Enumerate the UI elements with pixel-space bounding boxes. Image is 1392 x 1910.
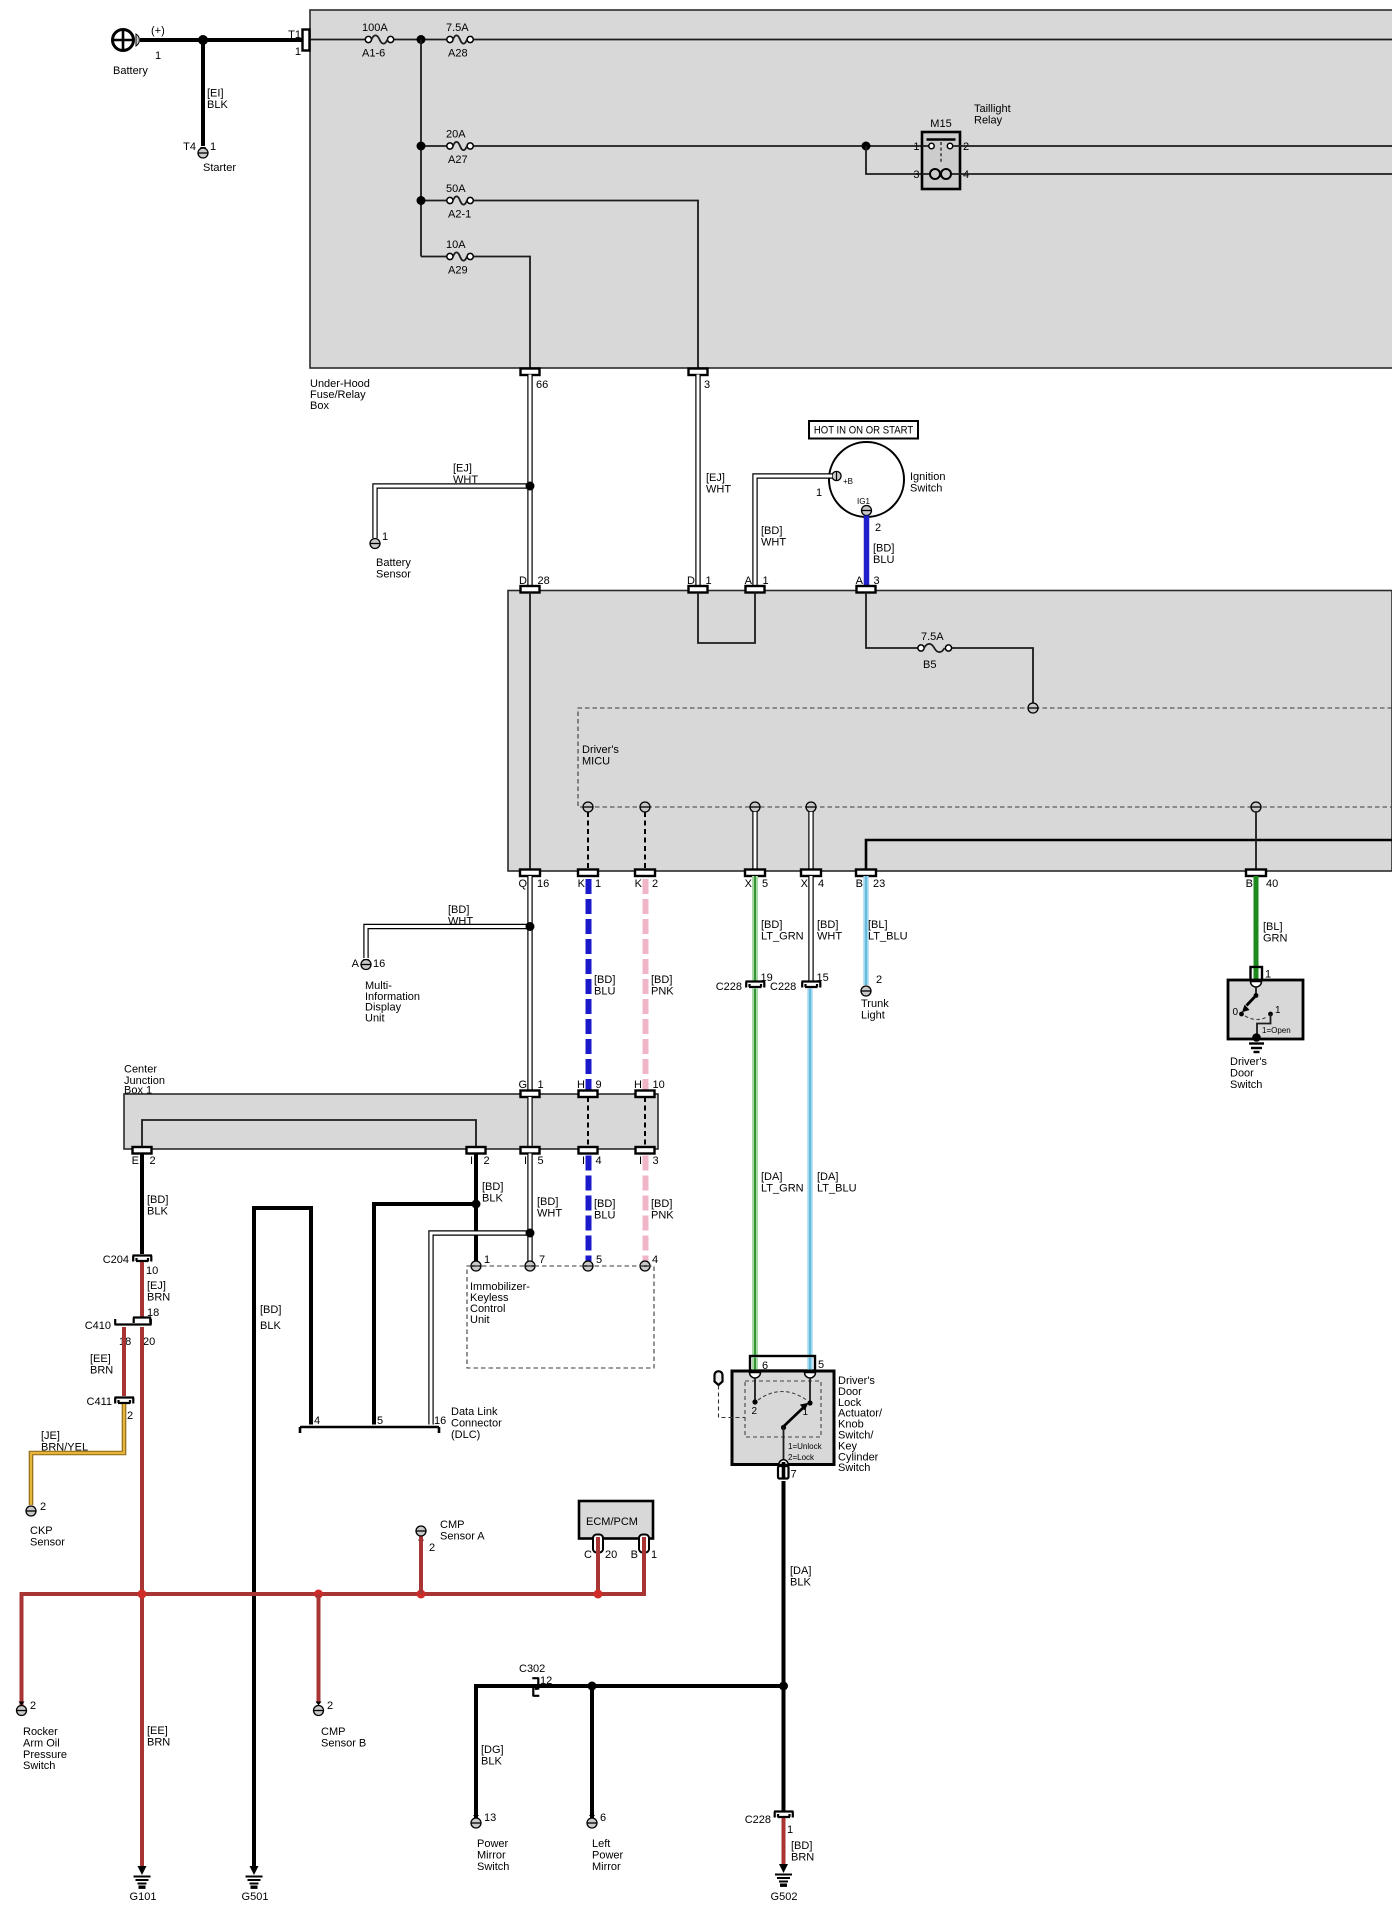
node relay branch junction	[862, 142, 871, 151]
svg-text:(DLC): (DLC)	[451, 1429, 480, 1441]
svg-text:1: 1	[787, 1824, 793, 1836]
wire [DA] LT_BLU to actuator	[807, 989, 812, 1357]
connector C228 (19)	[746, 982, 766, 988]
svg-text:X: X	[801, 878, 809, 890]
svg-text:1: 1	[155, 50, 161, 62]
svg-text:Starter: Starter	[203, 162, 236, 174]
svg-text:2: 2	[876, 974, 882, 986]
svg-text:1: 1	[382, 531, 388, 543]
svg-text:H: H	[634, 1079, 642, 1091]
pin K1	[578, 870, 598, 877]
pin I5	[521, 1147, 540, 1154]
connector C410	[115, 1318, 152, 1325]
svg-text:1: 1	[706, 575, 712, 587]
svg-text:G101: G101	[130, 1891, 157, 1903]
svg-text:Rocker: Rocker	[23, 1726, 58, 1738]
svg-text:2: 2	[429, 1542, 435, 1554]
svg-text:C: C	[584, 1549, 592, 1561]
svg-text:Pressure: Pressure	[23, 1749, 67, 1761]
svg-text:C228: C228	[745, 1814, 771, 1826]
svg-text:1: 1	[651, 1549, 657, 1561]
svg-text:Relay: Relay	[974, 114, 1003, 126]
Data Link Connector (DLC)	[300, 1427, 439, 1433]
wire K2 internal dashed	[644, 812, 646, 870]
wire H9-I4 internal dashed	[587, 1097, 589, 1147]
svg-text:16: 16	[434, 1415, 446, 1427]
svg-text:(+): (+)	[151, 25, 165, 37]
svg-text:BRN: BRN	[791, 1851, 814, 1863]
svg-text:A29: A29	[448, 265, 468, 277]
wire E2 [BD] BLK	[140, 1154, 144, 1255]
svg-text:GRN: GRN	[1263, 932, 1288, 944]
svg-text:Mirror: Mirror	[592, 1861, 621, 1873]
svg-text:G501: G501	[242, 1891, 269, 1903]
svg-text:G502: G502	[771, 1891, 798, 1903]
svg-text:1: 1	[538, 1079, 544, 1091]
svg-text:I: I	[639, 1155, 642, 1167]
connector C411	[115, 1398, 135, 1404]
svg-text:1=Unlock: 1=Unlock	[788, 1442, 823, 1451]
pin I2	[467, 1147, 486, 1154]
svg-text:Sensor: Sensor	[30, 1536, 65, 1548]
svg-text:[EI]: [EI]	[207, 88, 224, 100]
svg-text:BLK: BLK	[481, 1755, 502, 1767]
bullet pin 7	[779, 1460, 788, 1465]
svg-text:4: 4	[652, 1254, 658, 1266]
svg-text:Taillight: Taillight	[974, 103, 1011, 115]
svg-text:16: 16	[373, 958, 385, 970]
svg-text:BLU: BLU	[873, 554, 894, 566]
terminal K2 internal	[640, 802, 650, 812]
wire battery sensor branch	[375, 486, 530, 538]
svg-text:MICU: MICU	[582, 755, 610, 767]
connector door switch (1)	[1251, 967, 1263, 982]
node bus junction CMP A	[417, 1590, 426, 1599]
wire Q16 to G1 [BD] WHT	[527, 876, 532, 1091]
svg-text:6: 6	[600, 1812, 606, 1824]
pin E2	[133, 1147, 152, 1154]
svg-text:4: 4	[314, 1415, 320, 1427]
svg-text:12: 12	[540, 1675, 552, 1687]
svg-text:20A: 20A	[446, 129, 466, 141]
actuator internal dashed box	[745, 1381, 821, 1437]
svg-text:BRN: BRN	[90, 1364, 113, 1376]
svg-text:40: 40	[1266, 878, 1278, 890]
svg-text:Box 1: Box 1	[124, 1084, 152, 1096]
node mirror branch junction	[779, 1682, 788, 1691]
svg-text:HOT IN ON OR START: HOT IN ON OR START	[814, 425, 914, 437]
svg-text:[BD]: [BD]	[537, 1196, 558, 1208]
HOT IN ON OR START	[809, 421, 918, 439]
svg-text:Battery: Battery	[376, 557, 411, 569]
immobilizer terminal 4	[640, 1261, 650, 1271]
dashed arc actuator	[758, 1392, 807, 1401]
svg-text:+B: +B	[843, 477, 853, 486]
ECM/PCM	[579, 1501, 653, 1539]
node bus junction C20	[594, 1590, 603, 1599]
wire K1 out [BD] BLU dashed	[586, 879, 592, 1091]
svg-text:7: 7	[539, 1254, 545, 1266]
wire left power mirror	[590, 1686, 594, 1819]
pin 3 under-hood box	[689, 369, 708, 376]
bullet terminals actuator	[750, 1373, 761, 1379]
pin D28	[521, 586, 540, 593]
svg-text:LT_BLU: LT_BLU	[868, 930, 908, 942]
svg-text:I: I	[470, 1155, 473, 1167]
svg-text:A1-6: A1-6	[362, 48, 385, 60]
svg-text:PNK: PNK	[651, 985, 674, 997]
svg-text:[EE]: [EE]	[147, 1725, 168, 1737]
svg-text:1: 1	[816, 487, 822, 499]
svg-text:C204: C204	[103, 1254, 129, 1266]
svg-text:Unit: Unit	[365, 1012, 385, 1024]
terminal K1 internal	[583, 802, 593, 812]
terminal CMP sensor B 2	[316, 1702, 322, 1706]
svg-text:BRN: BRN	[147, 1736, 170, 1748]
svg-text:BLU: BLU	[594, 985, 615, 997]
svg-text:28: 28	[538, 575, 550, 587]
svg-text:[JE]: [JE]	[41, 1430, 60, 1442]
pin B23	[856, 870, 876, 877]
switch arm door switch	[1247, 996, 1257, 1006]
svg-text:3: 3	[704, 379, 710, 391]
wire fuse row 4 (10A)	[421, 257, 530, 369]
terminal trunk light 2	[863, 986, 869, 990]
svg-text:1: 1	[210, 141, 216, 153]
pin G1	[521, 1091, 540, 1098]
svg-text:50A: 50A	[446, 183, 466, 195]
svg-text:Q: Q	[518, 878, 527, 890]
pin 66 under-hood box	[521, 369, 540, 376]
wire I3 [BD] PNK dashed	[643, 1156, 649, 1262]
wire fuse row 2 (20A)	[421, 145, 922, 147]
wire main [EE] BRN bus	[22, 1594, 645, 1706]
svg-text:1=Open: 1=Open	[1262, 1026, 1291, 1035]
svg-text:[BD]: [BD]	[482, 1181, 503, 1193]
pin H9	[579, 1091, 598, 1098]
ground G502	[779, 1864, 788, 1873]
svg-text:CMP: CMP	[321, 1726, 345, 1738]
wire D28 to Q16 internal	[529, 593, 531, 870]
node bus junction G101	[138, 1590, 147, 1599]
wire pin66 to D28 [EJ] WHT	[527, 375, 532, 588]
wire K1 internal dashed	[587, 812, 589, 870]
svg-text:X: X	[745, 878, 753, 890]
svg-text:4: 4	[963, 169, 969, 181]
svg-text:20: 20	[143, 1336, 155, 1348]
svg-text:ECM/PCM: ECM/PCM	[586, 1516, 638, 1528]
Driver's Door Switch box	[1228, 980, 1303, 1039]
svg-text:C228: C228	[716, 981, 742, 993]
svg-text:15: 15	[817, 972, 829, 984]
svg-text:2: 2	[963, 141, 969, 153]
wire IG1 [BD] BLU	[864, 516, 870, 588]
svg-text:1: 1	[595, 878, 601, 890]
svg-text:20: 20	[605, 1549, 617, 1561]
terminal X4 internal	[806, 802, 816, 812]
pin C20	[593, 1535, 603, 1553]
svg-text:Sensor A: Sensor A	[440, 1530, 485, 1542]
pin X4	[801, 870, 821, 877]
svg-text:4: 4	[596, 1155, 602, 1167]
svg-text:2: 2	[40, 1501, 46, 1513]
immobilizer terminal 1	[471, 1261, 481, 1271]
wire B23 out [BL] LT_BLU	[863, 876, 868, 985]
svg-text:[BD]: [BD]	[594, 1198, 615, 1210]
wire fuse row 3 (50A)	[421, 201, 698, 369]
svg-text:BLK: BLK	[260, 1320, 281, 1332]
svg-text:3: 3	[653, 1155, 659, 1167]
svg-text:[EJ]: [EJ]	[453, 463, 472, 475]
svg-text:5: 5	[762, 878, 768, 890]
svg-text:23: 23	[873, 878, 885, 890]
svg-text:2: 2	[652, 878, 658, 890]
fuse 100A A1-6	[365, 36, 371, 42]
wire [DA] BLK	[782, 1481, 786, 1811]
svg-text:2: 2	[30, 1700, 36, 1712]
svg-text:[BD]: [BD]	[817, 919, 838, 931]
wire B23 internal	[866, 840, 1392, 870]
svg-text:WHT: WHT	[706, 483, 731, 495]
pin D1	[689, 586, 708, 593]
svg-text:Switch: Switch	[1230, 1079, 1262, 1091]
svg-text:C410: C410	[85, 1320, 111, 1332]
svg-text:[BD]: [BD]	[761, 525, 782, 537]
svg-text:A2-1: A2-1	[448, 209, 471, 221]
svg-text:[BD]: [BD]	[761, 919, 782, 931]
svg-text:Driver's: Driver's	[582, 744, 619, 756]
svg-text:Sensor: Sensor	[376, 568, 411, 580]
node battery/starter junction	[198, 35, 208, 45]
wire [JE] BRN/YEL	[31, 1404, 124, 1505]
svg-text:BLU: BLU	[594, 1209, 615, 1221]
wire to DLC pin 5	[374, 1204, 476, 1425]
svg-text:10: 10	[653, 1079, 665, 1091]
svg-text:[DA]: [DA]	[817, 1171, 838, 1183]
svg-text:4: 4	[818, 878, 824, 890]
svg-text:T4: T4	[183, 141, 196, 153]
wire mirror branch	[476, 1686, 784, 1819]
terminal on dashed line (B5 out)	[1028, 703, 1038, 713]
svg-text:B: B	[631, 1549, 638, 1561]
pin A1	[746, 586, 765, 593]
wire G1-I5 internal	[527, 1097, 532, 1147]
starter terminal 1	[200, 147, 206, 151]
svg-text:Unit: Unit	[470, 1314, 490, 1326]
svg-text:3: 3	[913, 169, 919, 181]
wire [EI] BLK to starter	[201, 40, 205, 146]
wire D1-A1 internal U	[698, 593, 755, 644]
svg-text:M15: M15	[930, 118, 951, 130]
svg-text:[EJ]: [EJ]	[147, 1280, 166, 1292]
wire X5 out [BD] LT_GRN	[752, 876, 758, 981]
svg-text:Trunk: Trunk	[861, 998, 889, 1010]
svg-text:Switch: Switch	[910, 482, 942, 494]
wire A3 to fuse B5	[866, 593, 918, 649]
connector C228 (15)	[802, 982, 822, 988]
connector C204	[133, 1256, 153, 1262]
wire X4 internal	[808, 812, 813, 870]
svg-text:I: I	[524, 1155, 527, 1167]
svg-text:WHT: WHT	[817, 930, 842, 942]
pin B40	[1246, 870, 1266, 877]
svg-text:WHT: WHT	[537, 1207, 562, 1219]
wire B40 internal	[1255, 812, 1257, 870]
svg-text:C302: C302	[519, 1663, 545, 1675]
svg-text:16: 16	[537, 878, 549, 890]
wire branch to MID unit	[366, 927, 530, 959]
svg-text:WHT: WHT	[761, 536, 786, 548]
svg-text:13: 13	[484, 1812, 496, 1824]
svg-text:LT_BLU: LT_BLU	[817, 1182, 857, 1194]
pin H10	[636, 1091, 655, 1098]
key cylinder symbol	[715, 1371, 723, 1385]
svg-text:[BD]: [BD]	[448, 904, 469, 916]
Under-Hood Fuse/Relay Box	[310, 10, 1392, 368]
wire relay pin4 out	[960, 173, 1392, 175]
node DLC5 junction	[472, 1200, 481, 1209]
svg-text:C411: C411	[87, 1396, 112, 1408]
pin Q16	[520, 870, 540, 877]
svg-text:7: 7	[791, 1469, 797, 1481]
svg-text:A: A	[745, 575, 753, 587]
pin B1	[639, 1535, 649, 1553]
node left mirror junction	[588, 1682, 597, 1691]
pin I3	[636, 1147, 655, 1154]
svg-text:BLK: BLK	[790, 1576, 811, 1588]
terminal X5 internal	[750, 802, 760, 812]
svg-text:CMP: CMP	[440, 1519, 464, 1531]
node DLC16 junction	[526, 1229, 535, 1238]
fuse 7.5A A28	[447, 36, 453, 42]
svg-text:Left: Left	[592, 1838, 610, 1850]
svg-text:1: 1	[295, 46, 301, 58]
svg-text:[BD]: [BD]	[147, 1194, 168, 1206]
connector T1	[303, 30, 310, 51]
svg-text:B: B	[856, 878, 863, 890]
connector C302	[532, 1678, 539, 1697]
svg-text:Power: Power	[477, 1838, 509, 1850]
svg-text:A27: A27	[448, 154, 468, 166]
svg-text:Arm Oil: Arm Oil	[23, 1737, 60, 1749]
svg-text:10A: 10A	[446, 239, 466, 251]
svg-text:2: 2	[484, 1155, 490, 1167]
svg-text:A28: A28	[448, 48, 468, 60]
svg-text:Box: Box	[310, 400, 329, 412]
wire X5 internal	[752, 812, 757, 870]
svg-text:Switch: Switch	[838, 1462, 870, 1474]
dashed arc door switch	[1245, 1016, 1267, 1020]
svg-text:[DA]: [DA]	[790, 1565, 811, 1577]
node battery sensor junction	[526, 482, 535, 491]
wire ignition +B [BD] WHT	[755, 476, 832, 587]
svg-text:A: A	[352, 958, 360, 970]
svg-text:[EJ]: [EJ]	[706, 472, 725, 484]
wire [EJ] BRN	[140, 1262, 144, 1317]
svg-text:2=Lock: 2=Lock	[788, 1453, 815, 1462]
svg-text:Ignition: Ignition	[910, 471, 945, 483]
Driver's Door Lock Actuator box	[732, 1371, 834, 1465]
wire H10-I3 internal dashed	[644, 1097, 646, 1147]
terminal CMP sensor A 2	[416, 1526, 426, 1536]
svg-text:[BD]: [BD]	[651, 1198, 672, 1210]
wire pin3 to D1 [EJ] WHT	[695, 375, 700, 588]
svg-text:K: K	[635, 878, 643, 890]
terminal A16 MID unit	[363, 959, 369, 963]
svg-text:Switch: Switch	[23, 1760, 55, 1772]
svg-text:[BD]: [BD]	[594, 974, 615, 986]
terminal CKP sensor 2	[28, 1506, 34, 1510]
Immobilizer-Keyless Control Unit dashed box	[467, 1266, 654, 1368]
wire E2-I2 internal	[142, 1120, 476, 1147]
svg-text:I: I	[582, 1155, 585, 1167]
svg-text:5: 5	[596, 1254, 602, 1266]
svg-text:7.5A: 7.5A	[921, 631, 944, 643]
svg-text:2: 2	[327, 1700, 333, 1712]
svg-text:Driver's: Driver's	[1230, 1056, 1267, 1068]
svg-text:10: 10	[146, 1265, 158, 1277]
wire X4 out [BD] WHT	[808, 876, 813, 981]
svg-text:[BD]: [BD]	[873, 543, 894, 555]
immobilizer terminal 7	[525, 1261, 535, 1271]
pin K2	[635, 870, 655, 877]
relay M15 Taillight Relay	[913, 103, 1010, 189]
svg-text:5: 5	[818, 1359, 824, 1371]
node MID branch junction	[526, 922, 535, 931]
svg-text:BLK: BLK	[482, 1192, 503, 1204]
svg-text:WHT: WHT	[453, 474, 478, 486]
svg-text:2: 2	[127, 1410, 133, 1422]
wire relay pin2 out	[960, 145, 1392, 147]
svg-text:0: 0	[1232, 1007, 1238, 1018]
svg-text:5: 5	[377, 1415, 383, 1427]
wire K2 out [BD] PNK dashed	[643, 879, 649, 1091]
node fuse bus junction	[417, 35, 426, 44]
svg-text:Sensor B: Sensor B	[321, 1737, 366, 1749]
svg-text:G: G	[518, 1079, 527, 1091]
svg-text:1: 1	[484, 1254, 490, 1266]
pin A3	[857, 586, 876, 593]
wire contact1 to ground	[1257, 1014, 1271, 1035]
svg-text:Light: Light	[861, 1009, 885, 1021]
svg-text:PNK: PNK	[651, 1209, 674, 1221]
pin I4	[579, 1147, 598, 1154]
wire [BD] BRN	[782, 1818, 786, 1866]
svg-text:2: 2	[150, 1155, 156, 1167]
MICU box	[508, 591, 1392, 872]
wire to relay pin 3	[866, 146, 922, 174]
connector C228 (1)	[774, 1812, 794, 1818]
immobilizer terminal 5	[583, 1261, 593, 1271]
actuator contacts	[754, 1378, 756, 1401]
Center Junction Box 1	[124, 1094, 658, 1149]
svg-text:7.5A: 7.5A	[446, 22, 469, 34]
svg-text:[DG]: [DG]	[481, 1744, 504, 1756]
svg-text:66: 66	[536, 379, 548, 391]
svg-text:3: 3	[874, 575, 880, 587]
Driver's MICU internal dashed boundary	[578, 708, 1392, 807]
svg-text:2: 2	[751, 1406, 757, 1417]
svg-text:[EE]: [EE]	[90, 1353, 111, 1365]
svg-text:BLK: BLK	[147, 1205, 168, 1217]
wire I5 [BD] WHT	[527, 1154, 532, 1262]
svg-text:1: 1	[913, 141, 919, 153]
svg-text:C228: C228	[770, 981, 796, 993]
svg-text:[DA]: [DA]	[761, 1171, 782, 1183]
wire DLC4 to G501	[254, 1208, 311, 1868]
terminal left power mirror 6	[589, 1815, 595, 1819]
svg-text:Mirror: Mirror	[477, 1849, 506, 1861]
